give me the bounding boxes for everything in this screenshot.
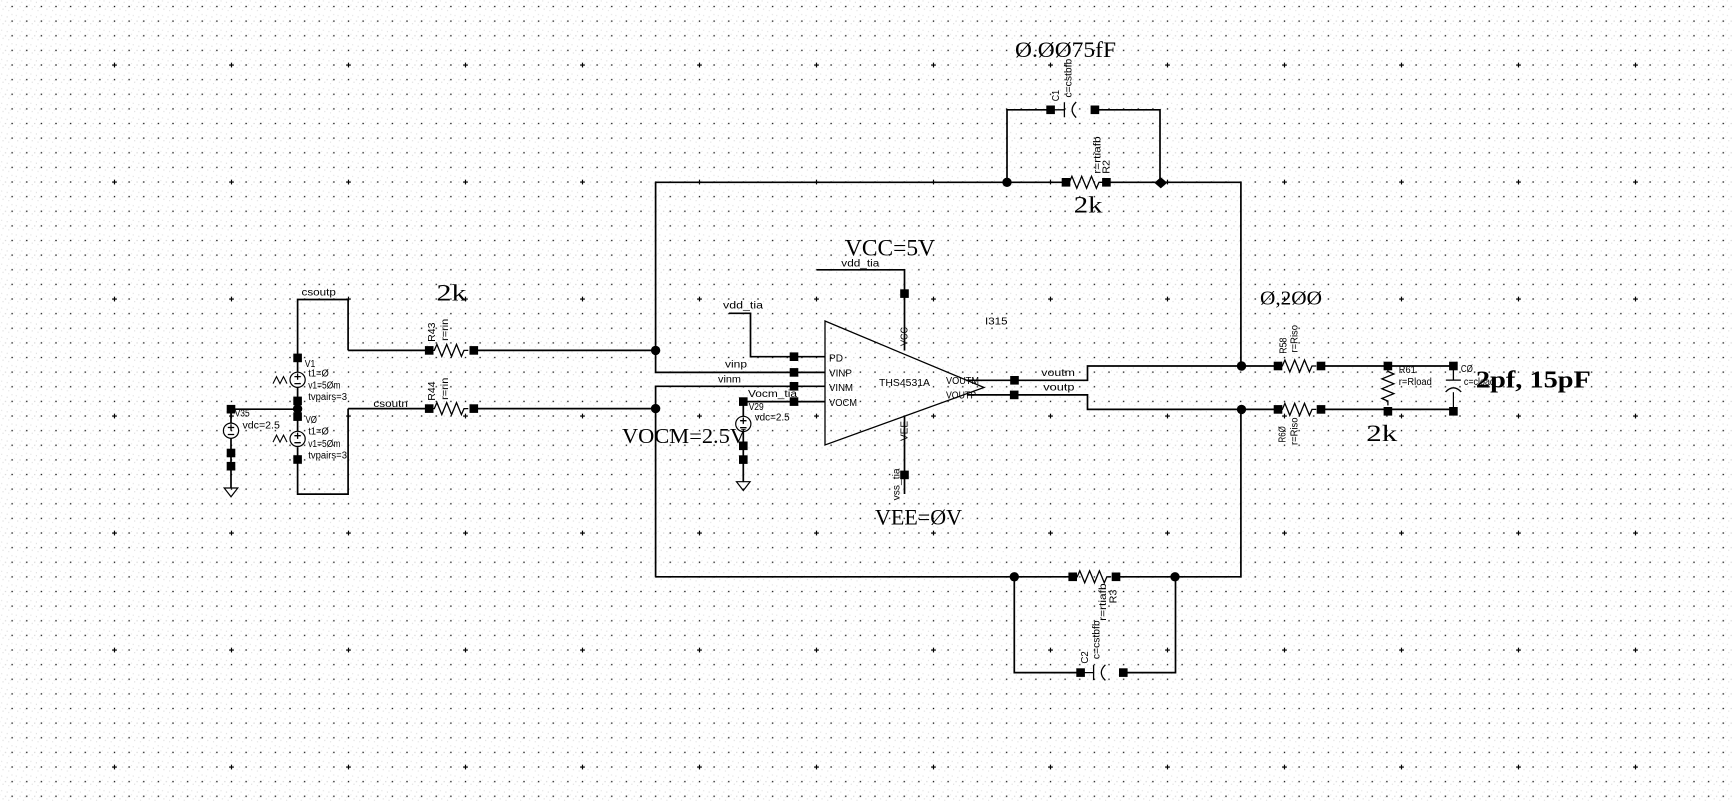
svg-text:tvpairs=3: tvpairs=3 [308, 392, 347, 403]
svg-text:Ø,2ØØ: Ø,2ØØ [1260, 288, 1322, 310]
svg-text:r=rtiafb: r=rtiafb [1098, 583, 1109, 621]
wire C2 branch right [1127, 577, 1176, 673]
node voutp feedback junction [1237, 405, 1246, 414]
svg-text:vinp: vinp [725, 360, 748, 371]
wire C1 branch left [1007, 110, 1047, 183]
svg-text:vdc=2.5: vdc=2.5 [755, 413, 790, 424]
svg-text:v1=5Øm: v1=5Øm [308, 439, 340, 450]
wire V29 to VOCM pin [743, 401, 825, 403]
svg-text:VCC=5V: VCC=5V [845, 236, 935, 261]
resistor R43 [425, 319, 478, 357]
resistor R3 [1068, 571, 1120, 621]
node between V1 and V0 [293, 404, 302, 413]
pin square VINM [790, 382, 799, 391]
svg-text:r=rin: r=rin [440, 319, 451, 341]
voltage source V1 [273, 354, 347, 406]
wire vdd_tia stub to PD pin [729, 313, 825, 356]
svg-text:2k: 2k [1366, 421, 1398, 446]
node vinm (R44 to feedback) [651, 404, 660, 413]
resistor R2 [1062, 136, 1113, 189]
resistor R60 [1274, 403, 1326, 445]
svg-text:VOUTP: VOUTP [946, 391, 976, 402]
voltage source V35 [223, 405, 280, 457]
wire C1 branch right [1095, 110, 1160, 183]
pin square VINP [790, 368, 799, 377]
svg-text:2k: 2k [1074, 193, 1103, 218]
wire VOUTM to node voutm and R58 [966, 366, 1274, 380]
capacitor C1 [1046, 58, 1099, 117]
svg-text:CØ: CØ [1461, 364, 1473, 375]
svg-text:PD: PD [829, 354, 843, 365]
ground below V29 [737, 455, 751, 490]
node C1/R2 left [1002, 178, 1011, 187]
svg-text:V29: V29 [749, 402, 764, 413]
svg-text:VINM: VINM [829, 383, 853, 394]
svg-text:c=cstbfb: c=cstbfb [1063, 58, 1074, 97]
wire R43 left lead [348, 349, 430, 351]
svg-text:V35: V35 [235, 409, 250, 420]
wire V35 stem [230, 409, 232, 488]
svg-text:voutp: voutp [1043, 383, 1075, 394]
svg-text:VINP: VINP [829, 369, 852, 380]
svg-text:THS4531A: THS4531A [879, 378, 930, 389]
svg-text:VOCM: VOCM [829, 398, 857, 409]
pin square VCC [900, 289, 909, 298]
wire csoutp loop (V1 top to R43 input) [298, 300, 349, 358]
wire bottom feedback left of R3 [656, 576, 1070, 578]
svg-text:Ø.ØØ75fF: Ø.ØØ75fF [1015, 37, 1116, 62]
pin square VOUTM [1010, 376, 1019, 385]
svg-text:csoutn: csoutn [373, 399, 408, 410]
svg-text:vss_tia: vss_tia [892, 468, 903, 500]
wire left feedback vertical lower [655, 409, 657, 577]
svg-text:I315: I315 [985, 317, 1008, 328]
svg-text:VEE: VEE [900, 421, 911, 441]
svg-text:R58: R58 [1278, 337, 1289, 354]
svg-text:voutm: voutm [1041, 368, 1075, 379]
svg-text:v1=5Øm: v1=5Øm [308, 381, 340, 392]
ground below V35 [224, 462, 238, 497]
svg-text:t1=Ø: t1=Ø [308, 368, 329, 379]
node bottom feedback / C2 left [1010, 572, 1019, 581]
svg-text:2k: 2k [437, 281, 468, 306]
wire between R60 and C9 bottom row [1325, 408, 1450, 410]
pin square VOUTP [1010, 391, 1019, 400]
svg-text:r=Rload: r=Rload [1399, 377, 1432, 388]
wire VOUTP to node voutp and R60 [967, 395, 1275, 410]
resistor R61 (Rload) [1382, 362, 1432, 416]
wire V35 to V1/V0 midpoint [227, 408, 297, 410]
svg-text:VEE=ØV: VEE=ØV [875, 505, 962, 530]
capacitor C2 [1076, 620, 1127, 680]
svg-text:C1: C1 [1051, 90, 1062, 102]
node vinp (R43 to feedback) [651, 346, 660, 355]
svg-text:r=rtiafb: r=rtiafb [1093, 136, 1104, 174]
svg-text:R61: R61 [1399, 365, 1416, 376]
svg-text:VCC: VCC [900, 327, 911, 346]
svg-text:vdc=2.5: vdc=2.5 [243, 421, 281, 432]
svg-text:R44: R44 [427, 381, 438, 401]
wire node voutp down to bottom feedback right of R3 [1120, 409, 1241, 576]
svg-text:R3: R3 [1109, 589, 1120, 603]
wire V1-V0 series chain [297, 358, 299, 448]
wire left feedback vertical upper [655, 182, 657, 350]
svg-text:VOUTM: VOUTM [946, 376, 979, 387]
svg-text:VØ: VØ [306, 415, 318, 426]
pin square VOCM [790, 397, 799, 406]
svg-text:csoutp: csoutp [302, 288, 337, 299]
svg-text:VOCM=2.5V: VOCM=2.5V [622, 424, 746, 448]
wire R44 left lead [348, 408, 430, 410]
node bottom feedback / C2 right [1170, 572, 1179, 581]
svg-text:vdd_tia: vdd_tia [723, 301, 764, 312]
svg-text:c=cstbfb: c=cstbfb [1092, 620, 1103, 659]
node C1/R2 right (diamond junction) [1154, 177, 1167, 188]
svg-text:2pf, 15pF: 2pf, 15pF [1476, 367, 1591, 393]
pin square PD [790, 352, 799, 361]
wire R43 output to node vinp [474, 349, 656, 351]
svg-text:C2: C2 [1080, 651, 1091, 664]
wire csoutn loop (V0 bottom to R44 input) [298, 409, 349, 495]
resistor R44 [425, 378, 478, 415]
wire VEE pin to vss_tia stub [904, 416, 906, 494]
wire vinm jog to VINM pin [656, 386, 825, 408]
svg-text:r=Riso: r=Riso [1290, 417, 1301, 445]
wire V29 stem [742, 402, 744, 482]
wire R44 output to node vinm [474, 408, 656, 410]
voltage source V29 [736, 397, 790, 450]
svg-text:t1=Ø: t1=Ø [308, 427, 329, 438]
pin square VEE [900, 471, 909, 480]
wire vinp jog to VINP pin [656, 350, 825, 372]
wire between R58 and C9 top row [1325, 365, 1450, 367]
svg-text:tvpairs=3: tvpairs=3 [308, 450, 347, 461]
wire top feedback right of R2 down to node voutm [1110, 182, 1241, 366]
node voutm feedback junction [1237, 361, 1246, 370]
voltage source V0 [273, 412, 347, 464]
wire C2 branch left [1014, 577, 1077, 673]
op-amp U1 THS4531A (instance I315) [825, 321, 984, 445]
capacitor C0 (load) [1446, 362, 1495, 416]
svg-text:vinm: vinm [718, 375, 741, 386]
resistor R58 [1274, 325, 1326, 372]
wire top feedback left of R2 [656, 181, 1063, 183]
svg-text:R43: R43 [427, 322, 438, 342]
svg-text:r=rin: r=rin [440, 378, 451, 400]
svg-text:r=Riso: r=Riso [1290, 325, 1301, 353]
wire vdd_tia to VCC pin [817, 270, 905, 351]
svg-text:R6Ø: R6Ø [1278, 426, 1289, 442]
